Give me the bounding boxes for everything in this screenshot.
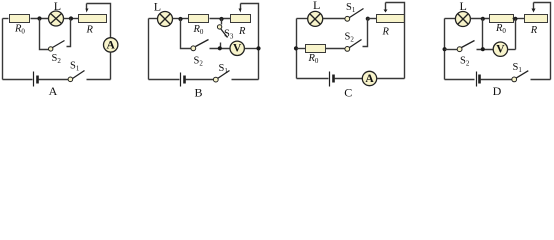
svg-text:B: B: [194, 86, 202, 100]
wire top A left: [3, 18, 9, 20]
node dot D1: [481, 17, 485, 21]
svg-text:R0: R0: [495, 23, 506, 35]
svg-text:L: L: [154, 0, 161, 13]
wire D: [513, 18, 525, 20]
svg-text:R0: R0: [193, 24, 204, 36]
svg-text:S3: S3: [224, 29, 234, 41]
wire C: [368, 18, 377, 20]
node dot D2: [513, 17, 517, 21]
lamp L (D): [455, 12, 470, 27]
switch S1 (A): [68, 77, 73, 82]
wire B: [210, 18, 231, 20]
wire B: [245, 48, 259, 50]
rheostat R (C): [377, 15, 405, 23]
left rail B: [148, 19, 150, 80]
wire A: [64, 18, 79, 20]
left rail C: [296, 19, 298, 79]
svg-text:L: L: [54, 0, 61, 13]
voltmeter V (D): [493, 42, 507, 56]
rheostat R (B): [231, 15, 251, 23]
switch S2 (B): [191, 46, 196, 51]
svg-text:L: L: [313, 0, 320, 12]
node dot B2: [219, 17, 223, 21]
battery (B): [180, 73, 182, 87]
wire C: [377, 78, 405, 80]
top wire D: [445, 18, 456, 20]
svg-text:L: L: [460, 0, 467, 13]
svg-text:R: R: [86, 24, 94, 35]
node dot A-left: [37, 16, 41, 20]
switch S2 (C): [345, 47, 350, 52]
slider arrow (A): [86, 4, 88, 10]
svg-text:S1: S1: [346, 2, 356, 14]
svg-text:S2: S2: [345, 32, 355, 44]
switch S2 branch (A): [40, 19, 49, 50]
wire D: [508, 49, 516, 51]
wire B: [173, 18, 189, 20]
svg-text:D: D: [493, 84, 502, 98]
wire A right rail lower: [110, 53, 112, 80]
switch S1 (C): [345, 16, 350, 21]
node dot B1: [178, 17, 182, 21]
node dot B4: [256, 46, 260, 50]
wire C: [326, 48, 345, 50]
switch S2 (D): [457, 47, 462, 52]
svg-text:S2: S2: [52, 53, 62, 65]
bottom wire B: [149, 79, 180, 81]
lamp L (B): [158, 12, 173, 27]
R0 row (C): [294, 46, 298, 50]
rheostat R (D): [525, 15, 548, 23]
node dot B3: [218, 46, 222, 50]
svg-text:R0: R0: [308, 53, 319, 65]
bottom wire D: [445, 79, 475, 81]
wire C: [323, 18, 345, 20]
voltmeter branch (B): [181, 19, 191, 49]
voltmeter branch (D): [482, 19, 484, 50]
wire A: [31, 18, 49, 20]
svg-text:S1: S1: [513, 62, 523, 74]
top wire B: [149, 18, 158, 20]
switch S1 (D): [512, 77, 517, 82]
wire left rail A: [2, 19, 4, 80]
svg-text:R: R: [238, 26, 246, 37]
battery (C): [329, 72, 331, 87]
resistor R0 (B): [189, 15, 209, 23]
voltmeter V (B): [230, 41, 244, 55]
svg-text:R: R: [530, 25, 538, 36]
slider arrow (C): [385, 3, 387, 10]
node dot A-right: [69, 16, 73, 20]
svg-text:A: A: [107, 39, 116, 51]
svg-text:A: A: [365, 73, 374, 85]
rheostat R (A): [79, 15, 107, 23]
svg-text:S1: S1: [70, 61, 80, 73]
svg-text:S2: S2: [194, 56, 204, 68]
svg-text:V: V: [233, 43, 242, 55]
svg-text:R0: R0: [14, 24, 25, 36]
resistor R0 (D): [490, 15, 514, 23]
ammeter A (A): [104, 38, 118, 52]
battery (D): [476, 72, 478, 87]
slider arrow (D): [533, 3, 535, 9]
svg-text:C: C: [344, 85, 352, 99]
svg-text:A: A: [49, 84, 58, 98]
top wire C: [297, 18, 308, 20]
lamp L (C): [308, 11, 323, 26]
svg-text:S1: S1: [219, 63, 229, 75]
lamp L (A): [49, 11, 64, 26]
left rail D: [444, 19, 446, 80]
switch S1 (B): [213, 77, 218, 82]
slider arrow (B): [240, 4, 242, 9]
svg-text:V: V: [496, 44, 505, 56]
svg-text:S2: S2: [460, 55, 470, 67]
node dot C-top: [366, 17, 370, 21]
resistor R0 (A): [10, 15, 30, 23]
svg-text:R: R: [382, 26, 390, 37]
resistor R0 (C): [306, 45, 326, 53]
wire D: [471, 18, 490, 20]
ammeter A (C): [362, 71, 376, 85]
node dot D3: [481, 47, 485, 51]
battery (A): [33, 72, 35, 87]
switch S3 (B): [221, 19, 223, 25]
bottom wire C: [297, 78, 329, 80]
bottom wire A: [3, 79, 33, 81]
